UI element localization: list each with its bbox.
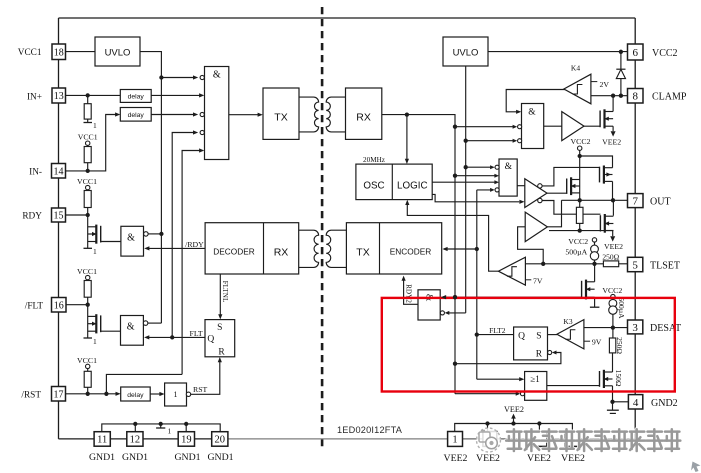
svg-text:7: 7 — [633, 196, 639, 208]
bubble U9 lower output — [538, 198, 542, 202]
node: DESAT junction — [611, 325, 615, 329]
ground 1 below R1 — [87, 119, 89, 122]
svg-text:FLT2: FLT2 — [489, 326, 506, 335]
wire: U3 output (inverted) to bus A bottom — [143, 321, 148, 326]
ground 1 below Q2 — [84, 337, 93, 339]
comparator K3 (9V DESAT) — [557, 320, 584, 349]
wire: U8 in1 (inverting) — [466, 166, 493, 168]
pin 19 GND1 — [178, 432, 194, 447]
svg-text:1: 1 — [174, 390, 178, 399]
wire: delay3 to buffer — [150, 393, 160, 395]
diode D1 (clamp to VCC2) — [620, 52, 622, 69]
node: /FLT junction — [86, 303, 90, 307]
svg-text:RX: RX — [274, 247, 289, 259]
wire: bus G to U14 in1 — [477, 378, 520, 380]
node: VCC2 rail / diode — [619, 50, 623, 54]
svg-text:15: 15 — [54, 211, 64, 222]
wire: R6 to bottom rail — [579, 223, 581, 230]
svg-text:16: 16 — [54, 300, 64, 311]
svg-text:delay: delay — [128, 112, 145, 119]
node: CLAMP junction a — [611, 94, 615, 98]
wire: RST to latch R input — [186, 392, 190, 396]
resistor R4 (/FLT pullup) — [87, 279, 89, 282]
pin 14 IN- — [52, 164, 66, 179]
svg-text:5: 5 — [632, 259, 638, 271]
power VEE2 arrow on bus — [513, 418, 515, 423]
node: GND2 junction — [610, 400, 614, 404]
svg-text:VCC1: VCC1 — [78, 133, 98, 142]
pin 2 VEE2 — [483, 432, 497, 447]
wire: VEE2 box3 stub — [538, 424, 540, 432]
wire: U10 out up to OUT rail — [547, 200, 561, 227]
svg-text:R: R — [536, 350, 543, 360]
label 9V — [584, 340, 590, 342]
wire: Q3 drain to CLAMP line — [612, 96, 614, 112]
wire: U6 out to buffer — [544, 125, 562, 127]
comparator U11 (7V TLSET) — [498, 257, 525, 285]
transistor Q1 (RDY open drain) — [87, 215, 89, 248]
svg-text:&: & — [528, 107, 536, 117]
transistor Q3 (clamp pulldown) — [605, 111, 614, 113]
node: /RST junction a — [86, 392, 90, 396]
node: bus F to U8 in1 — [464, 165, 468, 169]
wire: U6 in3 (inverting) — [466, 140, 516, 142]
svg-text:RST: RST — [193, 385, 208, 394]
node: bus A / U2 out — [159, 232, 163, 236]
node: bus E to U6 in2 — [453, 125, 457, 129]
wire: U1 output to TX1 — [229, 114, 258, 116]
svg-text:VCC2: VCC2 — [652, 48, 678, 59]
wire: Q1 gate to U2 — [101, 241, 121, 243]
svg-text:R: R — [218, 348, 225, 358]
transformer TR2 (feedback channel) — [299, 230, 319, 267]
svg-text:3: 3 — [632, 322, 638, 334]
node: OUT junction a — [578, 198, 582, 202]
wire: VCC2 to Q5 drain — [580, 156, 613, 168]
block TX1 (forward channel) — [263, 88, 299, 139]
svg-text:LOGIC: LOGIC — [397, 181, 428, 192]
wire: Q3 source to VEE2 — [612, 126, 614, 131]
pin 10 VEE2 — [565, 432, 580, 447]
wire: U2 output (inverted) to bus A — [144, 232, 149, 237]
block delay (IN-) — [120, 108, 151, 122]
wire: /RST pin to delay3 — [66, 393, 117, 395]
svg-text:DECODER: DECODER — [213, 247, 255, 257]
svg-text:VCC2: VCC2 — [568, 237, 588, 246]
pin 1 VEE2 — [448, 432, 463, 447]
pin 5 TLSET — [628, 257, 643, 271]
wire: Q6 drain to OUT — [612, 200, 614, 215]
svg-text:≥1: ≥1 — [530, 374, 539, 384]
svg-text:GND2: GND2 — [651, 398, 678, 409]
wire: LOGIC to U8 in3 — [432, 181, 494, 183]
current source CS1 — [594, 242, 596, 245]
wire: bus F from UVLO2 down — [465, 66, 467, 313]
node: junction pin12 bus — [133, 422, 137, 426]
svg-text:150Ω: 150Ω — [614, 370, 623, 387]
highlight: red rectangle (DESAT fault section) — [382, 298, 675, 392]
node: RDY junction — [86, 213, 90, 217]
block TX / ENCODER — [346, 223, 441, 274]
wire: rail to VEE2 arrow — [612, 231, 614, 237]
watermark text (stylized CJK strokes) — [506, 429, 680, 451]
svg-text:2V: 2V — [600, 80, 610, 89]
flip-flop U13 SR latch (DESAT) — [514, 327, 548, 360]
svg-text:CLAMP: CLAMP — [652, 92, 687, 103]
svg-text:VCC1: VCC1 — [18, 48, 42, 58]
svg-text:14: 14 — [54, 166, 64, 177]
svg-text:20: 20 — [215, 435, 226, 446]
svg-text:1: 1 — [452, 435, 457, 446]
node: IN+ junction — [86, 93, 90, 97]
svg-text:Q: Q — [518, 332, 525, 342]
svg-text:12: 12 — [130, 435, 141, 446]
wire: OUT rail to pin 7 — [562, 199, 628, 201]
svg-text:VEE2: VEE2 — [476, 453, 500, 464]
block delay (IN+) — [120, 90, 151, 103]
label 7V — [525, 279, 531, 281]
ground (TLSET) — [594, 297, 596, 307]
pin 4 GND2 — [628, 395, 642, 409]
node: TLSET junction b — [592, 262, 596, 266]
svg-text:250Ω: 250Ω — [615, 337, 624, 354]
isolation barrier (dashed) — [321, 7, 324, 450]
svg-text:RDY2: RDY2 — [404, 284, 412, 303]
svg-text:TX: TX — [356, 247, 369, 259]
resistor R8 (DESAT 250) — [612, 328, 614, 338]
svg-text:VCC1: VCC1 — [77, 177, 97, 186]
svg-text:ENCODER: ENCODER — [390, 247, 432, 257]
block UVLO (input side) — [95, 37, 140, 66]
wire: output-stage bottom rail — [549, 230, 613, 232]
svg-text:S: S — [536, 332, 541, 342]
svg-text:VCC1: VCC1 — [77, 356, 97, 365]
gate U8 AND (output logic) — [499, 159, 517, 196]
node: OUT junction b — [611, 198, 615, 202]
wire: U7 out to Q3 gate — [583, 125, 600, 127]
wire: UVLO output to bus A — [140, 52, 161, 324]
bubble U9 upper output — [538, 184, 542, 188]
node: /RST junction b — [104, 392, 108, 396]
comparator K4 (2V clamp) — [564, 74, 591, 104]
wire: delay2 to U1 in3 (inverting) — [151, 114, 196, 116]
node: bus E to U8 in2 — [453, 174, 457, 178]
resistor R5 (/RST pullup) — [87, 369, 89, 372]
pin 3 DESAT — [628, 320, 643, 334]
wire: U12 in2 (inverting) from bus F — [449, 312, 466, 314]
wire: delay1 to U1 in2 — [151, 94, 200, 96]
svg-text:delay: delay — [127, 392, 144, 399]
node: VCC2 feed split — [578, 154, 582, 158]
wire: bus G to U8 in4 (inverting) — [477, 189, 493, 191]
pin 7 OUT — [628, 194, 644, 208]
block OSC / LOGIC — [356, 164, 432, 200]
node: FLT / bus C junction — [170, 335, 174, 339]
pin 13 IN+ — [52, 88, 66, 103]
wire: right border of IC — [634, 18, 636, 439]
node: CLAMP junction b — [619, 94, 623, 98]
wire: U11 output feedback to LOGIC — [407, 204, 498, 271]
node: bus A to U1 in1 — [159, 75, 163, 79]
svg-text:4: 4 — [633, 397, 639, 409]
node: junction VEE2 arrow — [511, 421, 515, 425]
svg-text:VEE2: VEE2 — [504, 405, 524, 414]
wire: K3 out to latch S — [548, 334, 558, 336]
wire: VCC2 feed down — [579, 150, 581, 207]
wire: GND1 pin chain — [59, 438, 95, 440]
wire: VCC2 rail to pin 6 — [488, 51, 628, 53]
svg-text:K3: K3 — [563, 317, 572, 326]
resistor R6 (output stage) — [576, 207, 583, 223]
svg-text:18: 18 — [54, 47, 64, 58]
gate U10 buffer (TLSET two-level) — [525, 212, 547, 242]
node: bus G / encoder line — [475, 247, 479, 251]
svg-text:19: 19 — [181, 435, 192, 446]
pin 15 RDY — [52, 208, 66, 222]
wire: GND2 line to pin 4 — [613, 401, 629, 403]
svg-text:7V: 7V — [533, 276, 543, 285]
transistor Q8 (DESAT/GND2) — [612, 353, 614, 372]
svg-text:13: 13 — [54, 91, 64, 102]
wire: U8 in2 — [455, 175, 495, 177]
wire: K4 output to U6 in1 — [506, 90, 566, 112]
transistor Q6 (pulldown) — [605, 215, 614, 217]
pin 16 /FLT — [52, 298, 67, 313]
svg-text:FLT: FLT — [190, 329, 203, 338]
svg-text:250Ω: 250Ω — [602, 253, 619, 262]
wire: clock into LOGIC — [406, 115, 408, 160]
svg-text:GND1: GND1 — [89, 452, 115, 463]
wire: Q8 source to GND2 — [612, 386, 614, 402]
node: bottom rail junction — [578, 228, 582, 232]
transformer TR1 (forward channel) — [299, 97, 319, 132]
transistor Q2 (/FLT open drain) — [87, 305, 89, 338]
svg-text:VEE2: VEE2 — [444, 453, 468, 464]
pin 6 VCC2 — [628, 44, 644, 60]
wire: U6 in2 (inverting) — [455, 126, 515, 128]
block DECODER / RX — [205, 223, 299, 274]
wire: Q5 source to OUT — [612, 181, 614, 200]
wire: Q2 gate to U3 — [101, 330, 121, 332]
wire: VEE2 box2 stub — [487, 424, 489, 432]
wire: TLSET line feed to U10 input — [518, 227, 544, 264]
wire: U9 upper out to Q5 gate — [542, 167, 600, 186]
svg-text:UVLO: UVLO — [105, 48, 131, 59]
svg-text:6: 6 — [633, 47, 639, 59]
svg-text:UVLO: UVLO — [453, 48, 479, 59]
svg-text:1: 1 — [93, 337, 97, 346]
transistor Q4 (small cascode) — [571, 179, 580, 181]
current source CS2 — [612, 298, 614, 301]
node: TLSET junction a — [541, 262, 545, 266]
svg-text:IN-: IN- — [29, 168, 42, 178]
resistor R3 (RDY pullup) — [87, 189, 89, 192]
svg-text:&: & — [213, 70, 221, 81]
svg-text:VEE2: VEE2 — [527, 453, 551, 464]
resistor R2 (VCC1 to IN-) — [87, 145, 89, 146]
transistor Q5 (pullup, to VCC2) — [604, 167, 613, 169]
wire: pin19 stub — [185, 424, 187, 432]
wire: U14 out to Q8 gate — [547, 385, 600, 387]
pin 17 /RST — [52, 387, 66, 402]
pin 8 CLAMP — [628, 89, 644, 104]
node: bus E / Q7 gate (over red) — [441, 295, 446, 299]
ground (GND2) — [612, 402, 614, 410]
svg-text:&: & — [127, 322, 135, 333]
wire: RX1 output to bus E — [382, 115, 455, 394]
svg-text:20MHz: 20MHz — [363, 156, 385, 164]
node: bus F to U6 in3 — [464, 139, 468, 143]
wire: VEE2 top bus — [455, 424, 573, 432]
wire: encoder data line — [444, 248, 477, 250]
svg-text:GND1: GND1 — [207, 452, 233, 463]
svg-text:delay: delay — [128, 94, 145, 101]
svg-text:DESAT: DESAT — [650, 323, 681, 334]
wire: FLTNL from DECODER to S — [219, 274, 221, 315]
gate U6 AND (clamp logic) — [522, 104, 544, 149]
svg-text:9V: 9V — [592, 338, 602, 347]
wire: U1 in1 (inverting) — [161, 77, 195, 79]
wire: /RDY from DECODER to U2 — [146, 247, 205, 249]
svg-text:VEE2: VEE2 — [561, 453, 585, 464]
svg-text:RX: RX — [356, 112, 371, 124]
svg-text:VEE2: VEE2 — [604, 242, 623, 251]
pin 11 GND1 — [94, 432, 110, 447]
gate U7 buffer (clamp driver) — [562, 112, 584, 141]
node: IN- junction — [86, 169, 90, 173]
svg-text:8: 8 — [633, 91, 639, 103]
wire: VEE2 pin chain — [463, 438, 483, 440]
gate U3 AND (/FLT) — [121, 316, 144, 346]
svg-text:1: 1 — [93, 247, 97, 256]
wire: TLSET line — [525, 263, 603, 265]
wire: bus E to U14 in2 (inverting) — [455, 393, 516, 395]
svg-text:17: 17 — [54, 389, 64, 400]
block UVLO (output side) — [443, 37, 488, 66]
ground GND1 symbol on bus — [159, 422, 163, 426]
svg-text:&: & — [505, 162, 513, 172]
svg-text:OUT: OUT — [650, 197, 671, 208]
wire: IN+ pin to delay — [66, 94, 121, 96]
wire: /RST to bus D — [106, 374, 182, 393]
node: bus E / Q7 gate — [453, 295, 457, 299]
wire: Q7 gate line from U12 — [443, 296, 582, 298]
gate U2 AND (RDY) — [121, 226, 144, 256]
svg-text:500µA: 500µA — [565, 247, 587, 256]
node: RX1 out junction — [405, 112, 409, 116]
svg-text:GND1: GND1 — [174, 452, 200, 463]
svg-text:VEE2: VEE2 — [602, 138, 621, 147]
svg-text:1: 1 — [168, 427, 172, 436]
wire: top border of IC — [59, 17, 636, 19]
pin 20 GND1 — [212, 432, 228, 447]
pin 12 GND1 — [127, 432, 143, 447]
node: junction pin19 bus — [184, 422, 188, 426]
svg-text:11: 11 — [97, 435, 107, 446]
wire: DESAT line to pin 3 — [584, 327, 628, 329]
svg-text:Q: Q — [207, 335, 214, 345]
wire: FLT from latch Q to U3 — [146, 336, 205, 338]
gate U4 buffer 1 — [165, 383, 187, 406]
svg-text:VCC2: VCC2 — [602, 286, 622, 295]
wire: CLAMP line (K4 input, pin 8) — [591, 95, 628, 97]
wire: RDY pin line — [66, 214, 88, 216]
wire: GND1 top bus — [102, 424, 220, 432]
wire: latch R input (inverting) — [548, 350, 552, 354]
wire: U1 in5 from /RST bus D — [182, 151, 200, 375]
resistor R1 (IN+ to GND1) — [87, 95, 89, 103]
svg-text:TLSET: TLSET — [650, 261, 680, 272]
wire: pin12 stub — [134, 424, 136, 432]
svg-text:/RDY: /RDY — [185, 240, 204, 249]
svg-text:/FLT: /FLT — [25, 302, 44, 312]
wire: bus G (encoder feedback) — [476, 190, 478, 379]
flip-flop U5 SR latch (FLT) — [205, 320, 235, 357]
watermark logo — [477, 428, 501, 452]
node: bus G / FLT2 — [475, 332, 479, 336]
gate U14 OR (&#8805;1) — [525, 372, 547, 401]
label 2V — [591, 81, 597, 83]
node: junction box3 — [537, 421, 541, 425]
ground 1 below Q1 — [84, 247, 93, 249]
block RX1 (forward channel) — [346, 88, 382, 139]
gate U12 AND (fault, rotated) — [418, 290, 440, 320]
wire: R7 to pin 5 — [619, 263, 628, 265]
svg-text:RDY: RDY — [22, 212, 42, 222]
block delay (/RST) — [121, 387, 151, 401]
resistor R7 (TLSET 250) — [603, 261, 618, 267]
svg-text:IN+: IN+ — [27, 93, 42, 103]
gate U9 driver (dual complementary out) — [525, 179, 547, 208]
wire: FLT2 to latch Q — [477, 334, 514, 336]
wire: U1 in4 from FLT bus C — [172, 133, 196, 338]
wire: pin18 to UVLO — [66, 51, 96, 53]
svg-text:&: & — [127, 233, 135, 244]
svg-text:TX: TX — [274, 112, 287, 124]
svg-text:FLTNL: FLTNL — [221, 281, 229, 303]
wire: LOGIC enable to U9 — [432, 194, 519, 201]
svg-text:K4: K4 — [571, 63, 580, 72]
svg-text:/RST: /RST — [21, 391, 41, 401]
svg-text:GND1: GND1 — [122, 452, 148, 463]
pin 18 VCC1 — [52, 44, 66, 60]
transistor Q7 (TLSET discharge) — [594, 264, 596, 282]
wire: U9 apex to Q4 gate — [547, 192, 566, 194]
svg-text:500µA: 500µA — [617, 298, 626, 320]
wire: U12 out RDY2 to ENCODER — [404, 280, 418, 304]
gate U1 AND (input logic, 5-in) — [205, 67, 229, 160]
decorative cursor bottom-right — [691, 462, 701, 473]
svg-text:1: 1 — [93, 121, 97, 130]
svg-text:1ED020I12FTA: 1ED020I12FTA — [337, 425, 403, 435]
wire: left border of IC — [58, 18, 60, 439]
pin 9 VEE2 — [532, 432, 547, 447]
svg-text:S: S — [217, 323, 222, 333]
node: bus E / R line — [453, 362, 457, 366]
wire: U8 out to driver U9 — [517, 185, 525, 187]
svg-text:VCC1: VCC1 — [77, 267, 97, 276]
wire: /FLT pin line — [66, 304, 88, 306]
wire: U9 lower out to Q6 gate — [542, 201, 600, 215]
svg-text:VCC2: VCC2 — [571, 137, 591, 146]
wire: IN- pin to delay2 — [66, 115, 117, 171]
svg-text:OSC: OSC — [363, 181, 384, 192]
wire: long GND1-to-VEE2 bottom run — [228, 438, 448, 440]
node: junction box2 — [485, 421, 489, 425]
